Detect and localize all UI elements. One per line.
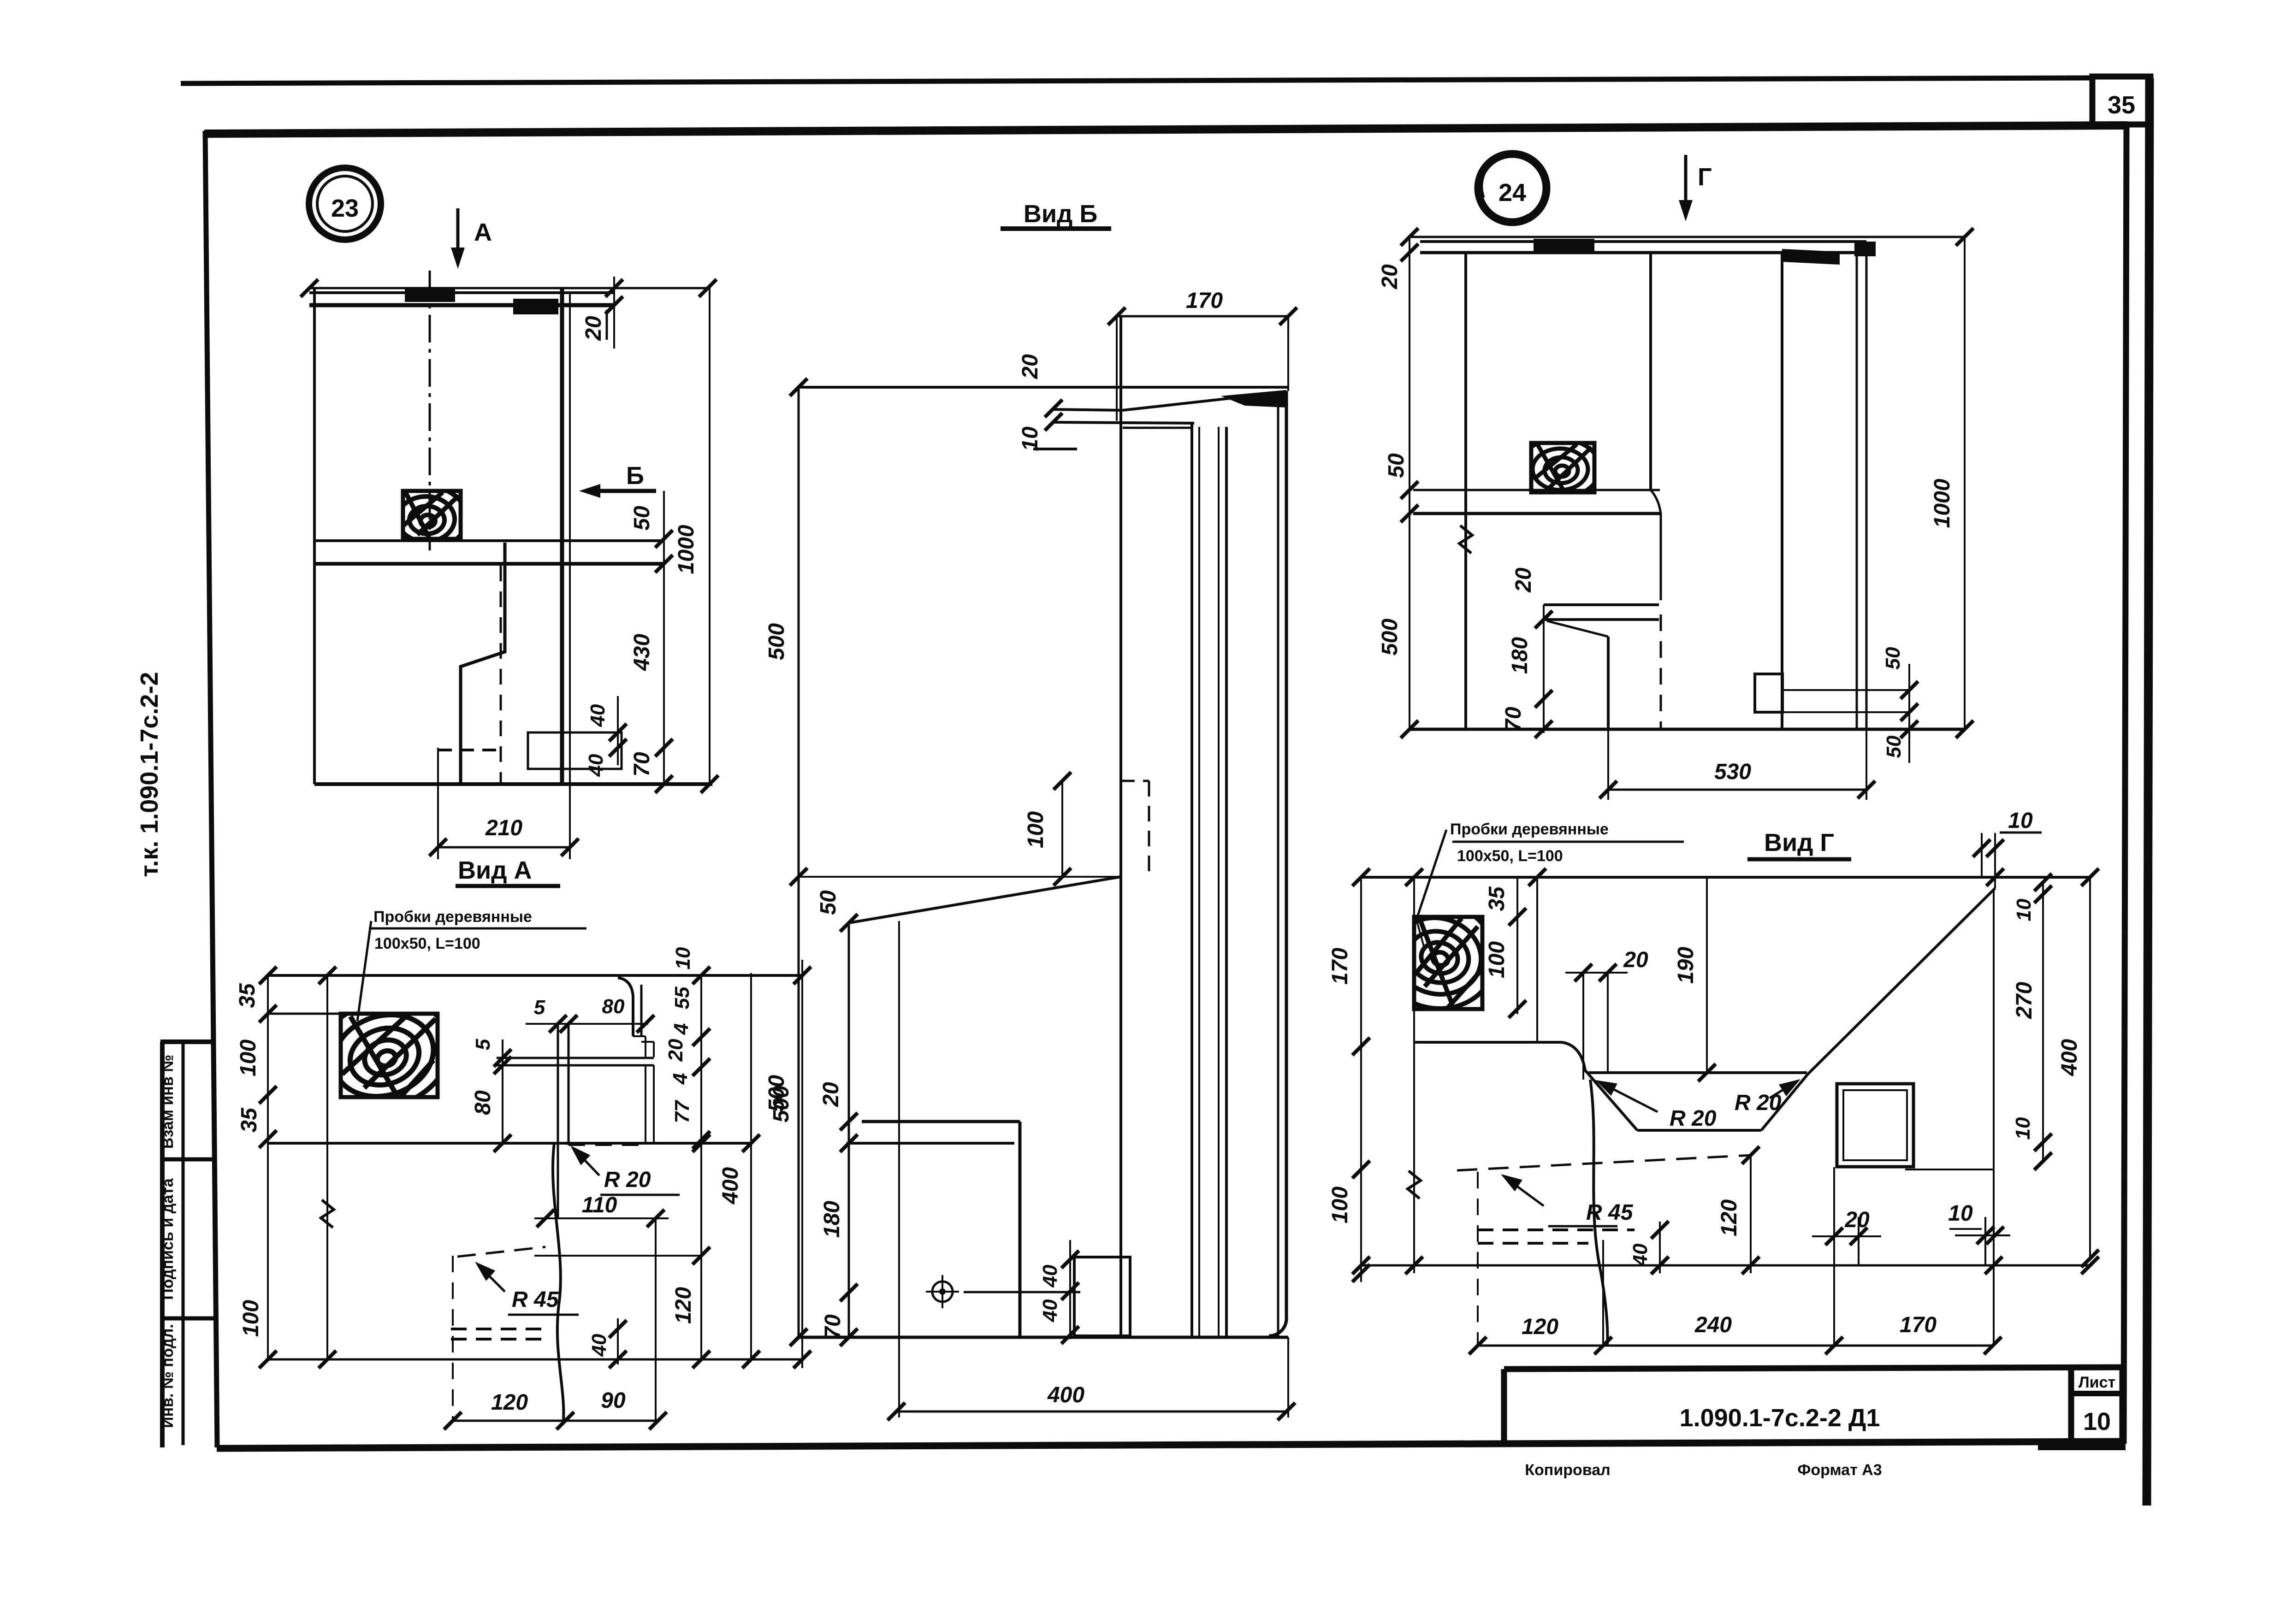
svg-text:R 20: R 20 (604, 1168, 651, 1192)
svg-text:5: 5 (534, 996, 545, 1019)
svg-text:10: 10 (672, 947, 694, 969)
svg-text:100х50, L=100: 100х50, L=100 (374, 935, 480, 952)
svg-text:Вид Б: Вид Б (1024, 200, 1097, 228)
svg-text:100: 100 (1328, 1187, 1352, 1223)
svg-text:35: 35 (237, 1107, 261, 1133)
svg-text:40: 40 (586, 704, 609, 727)
svg-text:80: 80 (602, 995, 625, 1018)
svg-text:170: 170 (1328, 948, 1352, 985)
svg-text:190: 190 (1674, 947, 1698, 984)
svg-text:20: 20 (581, 316, 606, 341)
svg-text:Б: Б (626, 462, 644, 490)
svg-text:170: 170 (1900, 1313, 1937, 1337)
svg-text:20: 20 (1623, 948, 1648, 972)
svg-text:Вид Г: Вид Г (1764, 829, 1834, 856)
svg-text:500: 500 (764, 1075, 789, 1112)
svg-text:10: 10 (2083, 1408, 2111, 1435)
svg-text:20: 20 (1018, 354, 1042, 379)
svg-text:40: 40 (1629, 1243, 1652, 1266)
svg-text:1000: 1000 (674, 525, 699, 574)
svg-text:4: 4 (670, 1023, 693, 1035)
svg-text:20: 20 (1378, 264, 1402, 289)
svg-text:400: 400 (718, 1167, 743, 1205)
svg-text:Копировал: Копировал (1525, 1461, 1610, 1479)
svg-text:240: 240 (1694, 1313, 1732, 1337)
svg-text:40: 40 (588, 1334, 610, 1357)
svg-text:A: A (474, 219, 492, 246)
svg-text:35: 35 (2108, 91, 2135, 119)
svg-text:20: 20 (1511, 567, 1536, 593)
svg-text:Лист: Лист (2079, 1374, 2115, 1391)
svg-text:100: 100 (1024, 811, 1048, 848)
svg-text:т.к. 1.090.1-7с.2-2: т.к. 1.090.1-7с.2-2 (136, 672, 163, 877)
svg-text:180: 180 (820, 1201, 844, 1238)
svg-text:Подпись и дата: Подпись и дата (159, 1178, 177, 1300)
svg-text:100: 100 (239, 1300, 263, 1337)
svg-text:100: 100 (236, 1039, 261, 1076)
svg-text:10: 10 (1018, 426, 1042, 451)
svg-text:77: 77 (671, 1099, 693, 1123)
svg-text:Взам инв №: Взам инв № (159, 1055, 177, 1149)
svg-text:500: 500 (1378, 619, 1402, 656)
svg-text:10: 10 (2008, 809, 2033, 833)
svg-text:50: 50 (816, 890, 841, 915)
svg-text:500: 500 (764, 623, 789, 660)
svg-text:110: 110 (582, 1193, 617, 1217)
svg-text:R 45: R 45 (1586, 1200, 1634, 1225)
svg-text:70: 70 (630, 752, 654, 777)
svg-text:80: 80 (471, 1090, 495, 1115)
svg-text:530: 530 (1714, 760, 1751, 784)
svg-text:55: 55 (671, 986, 693, 1009)
svg-text:Пробки деревянные: Пробки деревянные (1450, 821, 1609, 838)
svg-text:Пробки деревянные: Пробки деревянные (373, 908, 532, 926)
svg-text:40: 40 (1039, 1299, 1061, 1322)
svg-text:180: 180 (1508, 637, 1532, 674)
svg-text:5: 5 (472, 1039, 494, 1050)
svg-text:Инв. № подл.: Инв. № подл. (159, 1324, 177, 1428)
svg-text:20: 20 (819, 1082, 843, 1107)
svg-text:35: 35 (1485, 886, 1509, 911)
svg-text:120: 120 (1522, 1315, 1558, 1339)
svg-text:Формат А3: Формат А3 (1797, 1461, 1882, 1479)
svg-text:100х50, L=100: 100х50, L=100 (1457, 847, 1563, 865)
svg-text:40: 40 (585, 754, 607, 777)
svg-text:4: 4 (669, 1073, 692, 1085)
svg-text:1.090.1-7с.2-2 Д1: 1.090.1-7с.2-2 Д1 (1680, 1404, 1880, 1432)
svg-text:210: 210 (485, 816, 522, 840)
svg-text:35: 35 (235, 983, 260, 1008)
svg-text:70: 70 (821, 1314, 845, 1339)
svg-text:23: 23 (331, 195, 359, 222)
svg-text:100: 100 (1485, 941, 1509, 978)
svg-text:10: 10 (2012, 1117, 2034, 1140)
svg-text:10: 10 (1948, 1201, 1973, 1226)
svg-text:120: 120 (671, 1287, 696, 1324)
svg-text:10: 10 (2013, 898, 2035, 921)
svg-text:R 20: R 20 (1670, 1106, 1717, 1131)
svg-text:400: 400 (2057, 1039, 2082, 1076)
svg-text:400: 400 (1047, 1383, 1084, 1407)
svg-text:20: 20 (664, 1039, 687, 1062)
svg-text:120: 120 (491, 1390, 528, 1415)
svg-text:1000: 1000 (1930, 478, 1954, 528)
svg-text:50: 50 (630, 506, 654, 531)
svg-text:Вид А: Вид А (458, 856, 532, 884)
svg-text:50: 50 (1384, 453, 1409, 478)
svg-text:24: 24 (1498, 179, 1526, 207)
svg-text:40: 40 (1039, 1264, 1061, 1287)
svg-text:50: 50 (1883, 735, 1905, 758)
svg-text:270: 270 (2012, 982, 2037, 1019)
svg-text:R 45: R 45 (512, 1287, 559, 1312)
svg-text:Г: Г (1698, 163, 1712, 191)
svg-text:20: 20 (1844, 1208, 1870, 1232)
svg-text:50: 50 (1882, 647, 1904, 669)
svg-text:430: 430 (630, 634, 654, 671)
svg-text:170: 170 (1186, 289, 1223, 313)
svg-text:90: 90 (601, 1388, 626, 1413)
svg-text:120: 120 (1717, 1199, 1741, 1236)
